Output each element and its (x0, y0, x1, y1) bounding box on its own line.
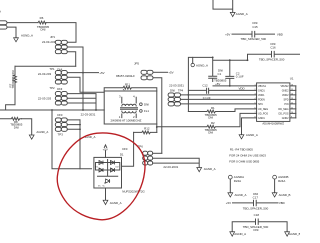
svg-text:TP1: TP1 (49, 67, 55, 71)
wire FL1 box to R2 line (156, 124, 158, 132)
wire TP2 pins to AGND bus (67, 94, 96, 110)
svg-text:5: 5 (255, 102, 256, 104)
svg-text:VDD2: VDD2 (282, 94, 289, 97)
ground AGND_A (R8) (29, 135, 34, 139)
svg-text:DNI: DNI (57, 87, 62, 91)
svg-text:VDD: VDD (239, 86, 245, 90)
svg-text:GND1: GND1 (258, 117, 265, 120)
connector J1 (left edge header) (0, 21, 7, 29)
wire TP1 pin1 to +5V (67, 72, 98, 74)
ground AGND_A (D1) (103, 200, 108, 204)
svg-text:PDEN: PDEN (258, 98, 265, 101)
wire TP6 pins to ground (153, 158, 200, 167)
svg-text:DNI: DNI (170, 89, 175, 93)
svg-text:22-03-2031: 22-03-2031 (163, 165, 178, 169)
wire U1 right pins (290, 86, 296, 118)
wire R6 to JP1 (46, 23, 76, 43)
svg-text:R2: R2 (211, 121, 215, 125)
resistor R8 (0, 117, 23, 129)
svg-text:3: 3 (255, 93, 256, 95)
wire D1 bottom to ground (105, 188, 107, 200)
svg-text:1: 1 (255, 84, 256, 86)
resistor R2 (157, 113, 257, 134)
svg-text:R11: R11 (125, 82, 130, 86)
svg-text:TP3: TP3 (58, 132, 64, 136)
svg-text:22-03-2031: 22-03-2031 (81, 112, 96, 116)
node TP4/U1 junction (188, 94, 190, 96)
svg-text:VL: VL (103, 186, 105, 188)
svg-text:C1: C1 (218, 72, 222, 76)
wire TP4 pins to U1 (181, 95, 257, 104)
svg-text:DNI: DNI (144, 102, 149, 106)
svg-text:+5V: +5V (226, 201, 231, 205)
wire top-right loop (213, 0, 233, 12)
capacitor C12 (188, 83, 256, 100)
testpoint TP3 (55, 112, 95, 136)
wire top rail y60 (213, 59, 248, 61)
svg-text:R12: R12 (144, 127, 150, 131)
transformer FL1 windings (111, 94, 142, 122)
annotation red circle (57, 133, 145, 220)
svg-text:JP5: JP5 (134, 62, 139, 66)
wire J1 to R6 (7, 22, 38, 24)
svg-text:C12: C12 (202, 83, 208, 87)
svg-text:AGND_A: AGND_A (204, 167, 216, 171)
pin FL1 (140, 110, 143, 113)
svg-text:DNI: DNI (41, 27, 46, 31)
svg-text:DNI: DNI (208, 131, 213, 135)
svg-text:U1: U1 (290, 77, 294, 81)
capacitor C18 spacer (232, 213, 287, 232)
resistor R12 (134, 127, 157, 134)
svg-text:AGND_A: AGND_A (246, 133, 258, 137)
svg-text:TBD_SPACER_500: TBD_SPACER_500 (259, 58, 285, 62)
ground AGND_B (C18 right) (285, 232, 290, 236)
resistor R11 (104, 82, 157, 92)
wire JP1 pin to +5V rail (67, 47, 83, 110)
svg-text:C17: C17 (253, 196, 259, 200)
svg-text:DNI: DNI (122, 147, 127, 151)
svg-text:AGND_A: AGND_A (235, 193, 247, 197)
svg-text:+5V: +5V (103, 147, 108, 151)
resistor R6 (37, 16, 50, 31)
svg-text:GND1: GND1 (258, 89, 265, 92)
IC U1 ADUM4160BRWZ (255, 77, 294, 126)
wire R7 top rail (15, 65, 76, 67)
ground flag AGND_A (circle) (191, 57, 208, 67)
svg-text:FOR 24 OHM 1% USE 0603: FOR 24 OHM 1% USE 0603 (229, 153, 266, 157)
capacitor C15 spacer (225, 21, 283, 41)
wire TP1 pin2 to transformer box (67, 77, 104, 92)
svg-text:AGND_A: AGND_A (21, 34, 33, 38)
svg-text:FL1: FL1 (144, 109, 149, 113)
svg-text:AGND_A: AGND_A (196, 64, 208, 68)
svg-text:NUP2202W1T2G: NUP2202W1T2G (122, 189, 145, 193)
capacitor C1 (209, 57, 227, 85)
testpoint TP4 (168, 84, 184, 106)
wire AGND bus (0, 109, 104, 111)
svg-text:VBD: VBD (277, 32, 283, 36)
wire J1 pin2 to ground (7, 27, 16, 38)
node bus junctions (51, 109, 53, 111)
node TP3 junctions (79, 124, 81, 126)
node R12 junction (156, 126, 158, 128)
ground AGND_A (left connector) (14, 38, 19, 42)
svg-text:R1: R1 (211, 106, 215, 110)
svg-text:R1- R4 TBD 0805: R1- R4 TBD 0805 (230, 148, 253, 152)
capacitor C2 (226, 60, 244, 86)
svg-text:IO1: IO1 (95, 166, 98, 168)
resistor R7 (9, 66, 17, 88)
svg-text:DD_POS: DD_POS (278, 112, 288, 115)
svg-text:22-03-203: 22-03-203 (38, 72, 52, 76)
svg-text:+5V: +5V (99, 71, 104, 75)
ground AGND_A (U1 GND1) (239, 135, 244, 139)
svg-text:VBUS2: VBUS2 (281, 85, 290, 88)
wire left rail of U1 section (188, 57, 212, 111)
svg-text:8: 8 (255, 116, 256, 118)
ground AGND_A (TP6) (197, 168, 202, 172)
svg-text:VBD: VBD (279, 201, 285, 205)
node VBUS1 junction (229, 85, 231, 87)
transformer FL1 box (104, 91, 157, 124)
svg-text:AGND_A: AGND_A (236, 12, 248, 16)
svg-text:A: A (0, 10, 1, 14)
wire R7 to AGND bus (6, 88, 15, 111)
svg-text:AGND_B: AGND_B (279, 193, 291, 197)
wire U1 right bus (295, 86, 297, 118)
wire TP6 pin1 riser (153, 152, 162, 154)
svg-text:+5V: +5V (215, 82, 220, 86)
node C1 junction (212, 57, 214, 59)
svg-text:DNI: DNI (208, 116, 213, 120)
svg-text:R24A: R24A (278, 179, 285, 183)
net-tie R24B (AGNDB) (272, 175, 290, 197)
svg-text:GND2: GND2 (282, 117, 289, 120)
power flag +5V (D1) (103, 145, 108, 158)
svg-text:AGND_A: AGND_A (234, 232, 246, 236)
svg-text:VBUS1: VBUS1 (258, 85, 267, 88)
svg-text:4: 4 (255, 98, 256, 100)
svg-text:D1: D1 (120, 153, 124, 157)
svg-text:DNI: DNI (254, 228, 259, 232)
svg-text:2: 2 (255, 89, 256, 91)
svg-text:2W0996 AT 100MEGHZ: 2W0996 AT 100MEGHZ (111, 119, 142, 123)
ground AGND_A (top) (230, 12, 235, 16)
wire JP5 pin1 to +5V (153, 71, 168, 73)
capacitor C17 spacer (226, 192, 285, 211)
testpoint TP6 (138, 144, 179, 168)
svg-text:TP4: TP4 (178, 89, 184, 93)
net-tie R24A (AGNDA) (228, 175, 247, 197)
svg-text:88157-0204LF: 88157-0204LF (116, 74, 135, 78)
testpoint TP1 (38, 67, 67, 84)
ground AGND_A (C18 left) (230, 232, 235, 236)
wire JP5 pin2 down to TP6 (153, 78, 162, 154)
svg-text:TBD_SPACER_500: TBD_SPACER_500 (241, 37, 267, 41)
svg-text:TBD_SPACER_500: TBD_SPACER_500 (243, 207, 269, 211)
svg-text:ADUM4160BRWZ: ADUM4160BRWZ (262, 122, 284, 126)
svg-text:C18: C18 (254, 213, 260, 217)
wire D1 I/O2 riser to R12 (122, 132, 134, 166)
pin DNI (FL1 right) (140, 103, 143, 106)
wire R8 to ground (22, 119, 32, 135)
wire U1 GND1 to ground (242, 118, 257, 135)
svg-text:PIN: PIN (284, 103, 288, 106)
wire U1 VBUS1 (213, 85, 257, 87)
svg-text:TP2: TP2 (49, 86, 55, 90)
wire TP3 pins to riser (67, 120, 80, 129)
svg-text:0.1UF: 0.1UF (236, 75, 244, 79)
svg-text:7: 7 (255, 112, 256, 114)
svg-text:22-03-203: 22-03-203 (38, 96, 52, 100)
svg-text:R24A: R24A (234, 179, 241, 183)
connector JP1 22-03-203 (42, 35, 67, 54)
wire JP1 pin3 loop (67, 52, 75, 67)
resistor R1 (188, 106, 256, 120)
svg-text:DD_NEG: DD_NEG (278, 108, 288, 111)
svg-text:+5V: +5V (168, 70, 173, 74)
wire TP3 riser to D1 run (79, 120, 81, 169)
svg-text:AGND_B: AGND_B (289, 232, 300, 236)
svg-text:UD_NEG: UD_NEG (258, 108, 268, 111)
svg-text:SPU: SPU (258, 103, 263, 106)
node top rail junctions (229, 59, 231, 61)
svg-text:JP1: JP1 (50, 35, 55, 39)
diode array D1 NUP2202W1T2G (94, 147, 146, 194)
svg-text:22-03-203: 22-03-203 (42, 40, 56, 44)
svg-text:C16: C16 (270, 46, 276, 50)
connector JP5 88157-0204LF (116, 62, 153, 80)
note R1-R4 (229, 148, 266, 164)
capacitor C16 spacer (248, 42, 301, 62)
wire AGND bus drop to D1 I/O1 (52, 110, 92, 169)
svg-text:SPD: SPD (283, 98, 288, 101)
svg-text:IO2: IO2 (116, 166, 119, 168)
svg-text:TBD0805 DNI: TBD0805 DNI (11, 70, 15, 88)
svg-text:22-03-2031: 22-03-2031 (169, 84, 184, 88)
svg-text:AGND_A: AGND_A (36, 130, 48, 134)
svg-text:+5V: +5V (225, 32, 230, 36)
svg-text:FOR 0 OHM USE 0805: FOR 0 OHM USE 0805 (229, 160, 259, 164)
svg-text:VDD1: VDD1 (258, 94, 265, 97)
node riser junction (79, 138, 81, 140)
svg-text:UD_POS: UD_POS (258, 112, 268, 115)
svg-text:6: 6 (255, 107, 256, 109)
svg-text:DNI: DNI (57, 113, 62, 117)
testpoint TP2 (38, 86, 67, 105)
svg-text:C15: C15 (252, 25, 258, 29)
svg-text:DNI: DNI (14, 125, 19, 129)
svg-text:R6: R6 (40, 16, 44, 20)
svg-text:AGND_A: AGND_A (110, 201, 122, 205)
svg-text:0.1UF: 0.1UF (203, 96, 211, 100)
node +5V junction (82, 72, 84, 74)
svg-text:GND2: GND2 (282, 89, 289, 92)
